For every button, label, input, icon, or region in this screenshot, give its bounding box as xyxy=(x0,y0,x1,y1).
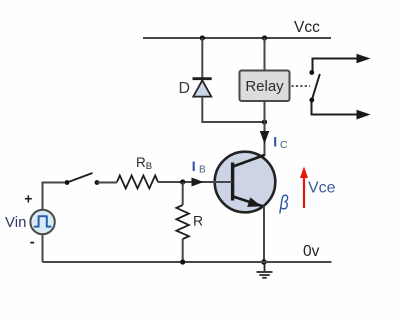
wire emitter down xyxy=(263,206,265,262)
relay contact node bottom xyxy=(309,98,314,103)
svg-text:B: B xyxy=(199,165,206,176)
svg-text:C: C xyxy=(280,139,288,151)
svg-text:Vcc: Vcc xyxy=(294,19,320,36)
ground symbol xyxy=(257,262,273,278)
transistor emitter arrow xyxy=(247,197,261,207)
relay contact bottom wire with arrow xyxy=(312,102,358,115)
svg-text:-: - xyxy=(30,234,35,251)
resistor RB xyxy=(117,176,158,189)
node junction base-R xyxy=(180,179,185,184)
node junction rail-diode xyxy=(200,35,205,40)
node junction R-rail xyxy=(180,259,185,264)
wire relay bottom to collector xyxy=(264,101,266,156)
relay contact node top xyxy=(309,70,314,75)
wire switch to RB xyxy=(97,182,117,184)
transistor collector stroke xyxy=(233,155,265,167)
node junction rail-relay xyxy=(262,35,267,40)
wire diode top xyxy=(201,38,203,79)
relay switch blade xyxy=(312,74,320,100)
arrow Vce red xyxy=(303,175,305,208)
arrow Ic current xyxy=(260,131,269,144)
svg-text:R: R xyxy=(136,155,146,170)
svg-text:I: I xyxy=(192,158,196,174)
wire input top left xyxy=(43,183,66,210)
arrow Ib current xyxy=(192,178,204,187)
svg-text:0v: 0v xyxy=(303,243,320,260)
wire R top xyxy=(182,182,184,205)
svg-text:R: R xyxy=(193,213,203,229)
wire R bottom xyxy=(182,239,184,262)
transistor Q1 body xyxy=(215,152,276,213)
wire relay top xyxy=(264,38,266,71)
dotted link relay to contacts xyxy=(292,85,311,87)
resistor R xyxy=(176,205,189,239)
svg-text:Relay: Relay xyxy=(245,78,284,95)
switch input node left xyxy=(65,180,70,185)
svg-text:B: B xyxy=(146,161,152,172)
node emitter-rail junction xyxy=(261,259,267,265)
svg-text:β: β xyxy=(279,192,289,215)
switch input blade xyxy=(67,173,93,183)
svg-text:+: + xyxy=(24,190,32,206)
source Vin xyxy=(30,210,54,234)
transistor base bar xyxy=(231,163,234,201)
svg-text:Vce: Vce xyxy=(308,180,336,197)
wire 0v rail xyxy=(43,261,332,263)
svg-text:D: D xyxy=(179,80,191,97)
relay coil box xyxy=(240,71,290,102)
node junction diode-collector xyxy=(262,119,267,124)
diode D xyxy=(193,79,212,97)
wire diode bottom xyxy=(202,97,264,122)
wire Vcc rail xyxy=(143,37,331,39)
source pulse glyph xyxy=(35,216,51,226)
svg-text:I: I xyxy=(273,134,277,150)
transistor emitter stroke xyxy=(233,197,264,207)
wire RB to base xyxy=(158,181,233,183)
relay contact top wire with arrow xyxy=(313,59,358,72)
switch input node right xyxy=(95,180,100,185)
svg-text:Vin: Vin xyxy=(5,214,26,231)
wire input bottom left xyxy=(42,234,44,262)
